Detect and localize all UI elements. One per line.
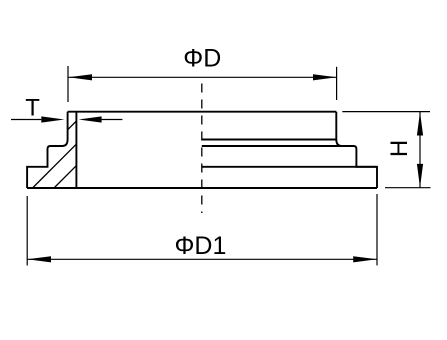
svg-text:T: T	[25, 95, 40, 122]
hatch h2	[33, 144, 77, 188]
dimension T	[11, 119, 122, 121]
ext line PhiD1 left	[26, 196, 28, 266]
arrow H bottom	[417, 164, 423, 188]
svg-text:ΦD: ΦD	[183, 45, 221, 73]
ext line H top	[342, 111, 430, 113]
left outer profile	[27, 112, 68, 188]
ext line PhiD right	[336, 67, 338, 100]
dim line H	[419, 112, 421, 187]
dim line PhiD1	[27, 258, 377, 260]
right outer profile	[336, 112, 377, 188]
hatch h3	[54, 166, 76, 188]
bore line	[75, 112, 77, 188]
arrow PhiD right	[313, 74, 337, 80]
top edge	[68, 111, 337, 113]
ext line PhiD left	[67, 66, 69, 102]
arrow PhiD1 right	[353, 256, 377, 262]
flange section drawing	[27, 112, 377, 188]
hatch h1	[68, 121, 77, 130]
arrow H top	[417, 112, 423, 136]
T leader left	[11, 119, 41, 121]
hatch lines	[33, 121, 77, 188]
dimension PhiD1	[27, 194, 377, 266]
dimension PhiD	[68, 66, 337, 102]
bottom edge	[27, 187, 377, 189]
arrow T left	[41, 116, 64, 122]
flange top line right	[202, 166, 377, 168]
ext line PhiD1 right	[376, 194, 378, 265]
step line mid right	[202, 145, 354, 147]
svg-text:ΦD1: ΦD1	[174, 232, 226, 260]
step line shoulder right	[202, 139, 336, 141]
T leader right	[102, 119, 123, 121]
ext line H bottom	[385, 187, 431, 189]
svg-text:H: H	[386, 140, 413, 157]
dim line PhiD	[68, 76, 336, 78]
centerline	[201, 84, 203, 214]
arrow PhiD1 left	[27, 256, 51, 262]
arrow T right	[79, 116, 102, 122]
arrow PhiD left	[68, 74, 92, 80]
dimension H	[342, 112, 430, 188]
